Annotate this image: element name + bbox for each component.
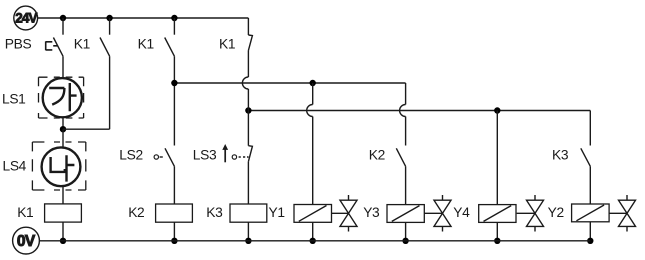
svg-text:K3: K3 bbox=[206, 205, 223, 220]
svg-text:LS1: LS1 bbox=[2, 92, 26, 107]
wire: LS1 to junction bbox=[62, 117, 64, 129]
wire: top 24V rail bbox=[38, 17, 249, 19]
wire: bus B corner down to K3 contact bbox=[589, 111, 591, 146]
node: busA-Y1 junction bbox=[310, 80, 316, 86]
relay coil K2 bbox=[156, 204, 193, 222]
node: Y1-rail2 junction bbox=[310, 238, 316, 244]
wire: Y4 coil to rail bbox=[496, 222, 498, 240]
svg-text:LS2: LS2 bbox=[119, 148, 143, 163]
node: K1-rail2 junction bbox=[60, 238, 66, 244]
node: K2-rail2 junction bbox=[171, 238, 177, 244]
svg-text:K3: K3 bbox=[552, 148, 569, 163]
valve symbol for Y3 bbox=[424, 195, 451, 232]
wire: bottom 0V rail bbox=[39, 240, 590, 242]
bus B wire bbox=[248, 110, 590, 112]
contact K1 no.2 (NO) bbox=[165, 18, 175, 146]
wire: hop to K2 contact bbox=[405, 117, 407, 146]
wire hop: Y1 branch over bus B bbox=[307, 105, 313, 117]
contact K2 (NO) bbox=[396, 148, 405, 204]
contact K1 no.3 (NO mirrored) bbox=[248, 18, 252, 77]
node: rail1-K1aux junction bbox=[106, 15, 112, 21]
wire: branch4 busB to LS3 bbox=[247, 111, 249, 146]
valve symbol for Y1 bbox=[332, 195, 358, 232]
valve symbol for Y4 bbox=[517, 195, 544, 232]
svg-text:K2: K2 bbox=[369, 148, 385, 163]
valve symbol for Y2 bbox=[609, 195, 636, 232]
svg-text:24V: 24V bbox=[15, 11, 37, 26]
svg-text:0V: 0V bbox=[17, 233, 36, 250]
bus A wire bbox=[174, 82, 405, 84]
wire: Y3 coil to rail bbox=[405, 222, 407, 240]
node: busA start junction bbox=[171, 80, 177, 86]
svg-text:Y4: Y4 bbox=[453, 205, 470, 220]
limit switch contact LS2 (NO with roller) bbox=[154, 148, 174, 204]
node: latch junction bbox=[60, 126, 66, 132]
wire hop: branch4 over bus A bbox=[242, 77, 248, 89]
limit switch contact LS3 (NO mirrored, with up arrow and actuator) bbox=[222, 144, 252, 204]
solenoid Y2 bbox=[572, 204, 610, 222]
contact K3 (NO) bbox=[581, 148, 591, 204]
wire: K1 coil to 0V rail bbox=[62, 222, 64, 241]
node: K3-rail2 junction bbox=[245, 238, 251, 244]
node: busB-Y4 junction bbox=[494, 107, 500, 113]
wire: bus A corner down to K2 contact bbox=[405, 83, 407, 105]
svg-text:K1: K1 bbox=[138, 36, 154, 51]
sensor LS4 (cylinder B limit, circle with Hangul NA) bbox=[42, 147, 81, 186]
24V supply terminal bbox=[14, 6, 38, 30]
relay coil K3 bbox=[230, 204, 267, 222]
contact K1 no.1 (NO) bbox=[100, 18, 110, 129]
wire: K3 coil to rail bbox=[247, 222, 249, 241]
svg-text:Y3: Y3 bbox=[363, 205, 380, 220]
svg-text:K2: K2 bbox=[128, 205, 144, 220]
wire: LS4 to K1 coil bbox=[62, 186, 64, 204]
node: rail1-branch3 junction bbox=[171, 15, 177, 21]
0V supply terminal bbox=[13, 227, 40, 254]
wire: Y4 branch from bus B bbox=[496, 111, 498, 205]
svg-text:LS3: LS3 bbox=[193, 148, 217, 163]
wire: branch4 hop to busB bbox=[247, 89, 249, 111]
svg-text:Y2: Y2 bbox=[548, 205, 564, 220]
solenoid Y4 bbox=[479, 205, 516, 223]
wire: K2 coil to rail bbox=[173, 222, 175, 241]
wire: Y2 coil to rail bbox=[589, 222, 591, 241]
relay coil K1 bbox=[45, 204, 82, 222]
svg-text:K1: K1 bbox=[74, 36, 90, 51]
svg-text:K1: K1 bbox=[219, 36, 235, 51]
dashed enclosure LS4 bbox=[32, 142, 85, 190]
svg-text:LS4: LS4 bbox=[3, 159, 27, 174]
wire: junction to LS4 bbox=[62, 129, 64, 147]
node: Y4-rail2 junction bbox=[494, 238, 500, 244]
pushbutton PBS (NO contact with manual actuator) bbox=[46, 18, 63, 78]
svg-text:PBS: PBS bbox=[5, 37, 32, 52]
wire hop: K2 branch over bus B bbox=[400, 105, 406, 117]
solenoid Y1 bbox=[294, 205, 332, 223]
node: rail1-PBS junction bbox=[60, 15, 66, 21]
dashed enclosure LS1 bbox=[39, 77, 84, 118]
wire: Y1 branch to coil bbox=[312, 117, 314, 205]
wire: Y1 branch from bus A bbox=[312, 83, 314, 105]
node: Y2-rail2 junction (rail end) bbox=[587, 238, 593, 244]
svg-text:Y1: Y1 bbox=[269, 205, 285, 220]
node: busB start junction bbox=[245, 107, 251, 113]
solenoid Y3 bbox=[387, 205, 424, 223]
wire: Y1 coil to rail bbox=[312, 222, 314, 241]
sensor LS1 (cylinder A limit, circle with Hangul GA) bbox=[43, 78, 82, 117]
wire: latch link from K1 aux bbox=[63, 128, 110, 130]
node: Y3-rail2 junction bbox=[402, 238, 408, 244]
svg-text:K1: K1 bbox=[17, 205, 33, 220]
